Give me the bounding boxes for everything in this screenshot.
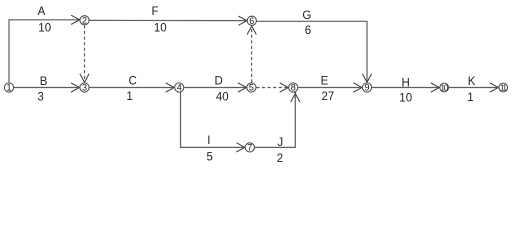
svg-text:1: 1 [126, 91, 132, 103]
node 7 [245, 143, 254, 153]
svg-text:B: B [40, 76, 48, 88]
svg-text:5: 5 [206, 152, 212, 164]
node 8 [289, 83, 298, 93]
node 2 [80, 16, 89, 26]
dashed dummy from node 2 down to node 3 [84, 25, 86, 81]
svg-text:1: 1 [6, 83, 11, 93]
svg-text:10: 10 [154, 22, 167, 34]
svg-text:4: 4 [177, 83, 182, 93]
arrowhead into node 3 [71, 83, 81, 92]
svg-text:K: K [468, 76, 476, 88]
svg-text:C: C [128, 76, 136, 88]
svg-text:5: 5 [249, 83, 254, 93]
arrowhead into node 11 [490, 83, 500, 92]
node 9 [362, 83, 371, 93]
arrowhead into node 6 from below [247, 25, 256, 35]
arrowhead into node 3 from top [80, 74, 89, 84]
svg-text:E: E [321, 75, 329, 87]
svg-text:G: G [302, 10, 311, 22]
dashed dummy from node 5 to node 8 [256, 87, 288, 89]
svg-text:10: 10 [38, 22, 51, 34]
svg-text:F: F [151, 6, 158, 18]
wire activity H from node 9 to node 10 [372, 87, 439, 89]
arrowhead into node 8 [280, 83, 290, 92]
wire activity D from node 4 to node 5 [184, 87, 246, 89]
svg-text:9: 9 [364, 83, 369, 93]
svg-text:D: D [214, 76, 222, 88]
svg-text:J: J [277, 137, 283, 149]
svg-text:8: 8 [291, 83, 296, 93]
node 5 [247, 83, 256, 93]
arrowhead into node 2 [71, 15, 81, 24]
dashed dummy from node 5 up to node 6 [251, 26, 253, 83]
wire activity J from node 7 right then up to node 8 [255, 94, 296, 147]
arrowhead into node 6 [238, 16, 248, 25]
node 3 [80, 83, 89, 93]
wire activity B from node 1 to node 3 [14, 87, 80, 89]
node 6 [247, 16, 256, 26]
wire activity E from node 8 to node 9 [298, 87, 362, 89]
svg-text:40: 40 [216, 91, 229, 103]
arrowhead into node 8 from below [291, 92, 300, 102]
wire activity F from node 2 to node 6 [89, 19, 247, 21]
svg-text:2: 2 [277, 153, 283, 165]
wire activity A from node 1 up and right to node 2 [9, 20, 80, 83]
arrowhead into node 9 from top [362, 74, 371, 84]
wire activity C from node 3 to node 4 [89, 87, 174, 89]
node 1 [4, 83, 13, 93]
arrowhead into node 5 [238, 83, 248, 92]
svg-text:H: H [402, 77, 410, 89]
arrowhead into node 4 [166, 83, 176, 92]
node 4 [175, 83, 184, 93]
wire activity G from node 6 right then down to node 9 [257, 21, 367, 82]
svg-text:6: 6 [249, 16, 254, 26]
arrowhead into node 9 [354, 83, 364, 92]
node 11 [499, 83, 508, 93]
svg-text:2: 2 [82, 16, 87, 26]
svg-text:27: 27 [322, 91, 335, 103]
svg-text:3: 3 [82, 83, 87, 93]
svg-text:A: A [38, 6, 46, 18]
svg-text:7: 7 [247, 143, 252, 153]
svg-text:3: 3 [37, 92, 43, 104]
svg-text:1: 1 [467, 92, 473, 104]
svg-text:I: I [207, 135, 210, 147]
arrowhead into node 7 [236, 143, 246, 152]
wire activity K from node 10 to node 11 [449, 87, 498, 89]
node 10 [440, 83, 449, 93]
svg-text:10: 10 [399, 92, 412, 104]
svg-text:6: 6 [305, 25, 311, 37]
arrowhead into node 10 [431, 83, 441, 92]
wire activity I from node 4 down and right to node 7 [181, 92, 245, 147]
